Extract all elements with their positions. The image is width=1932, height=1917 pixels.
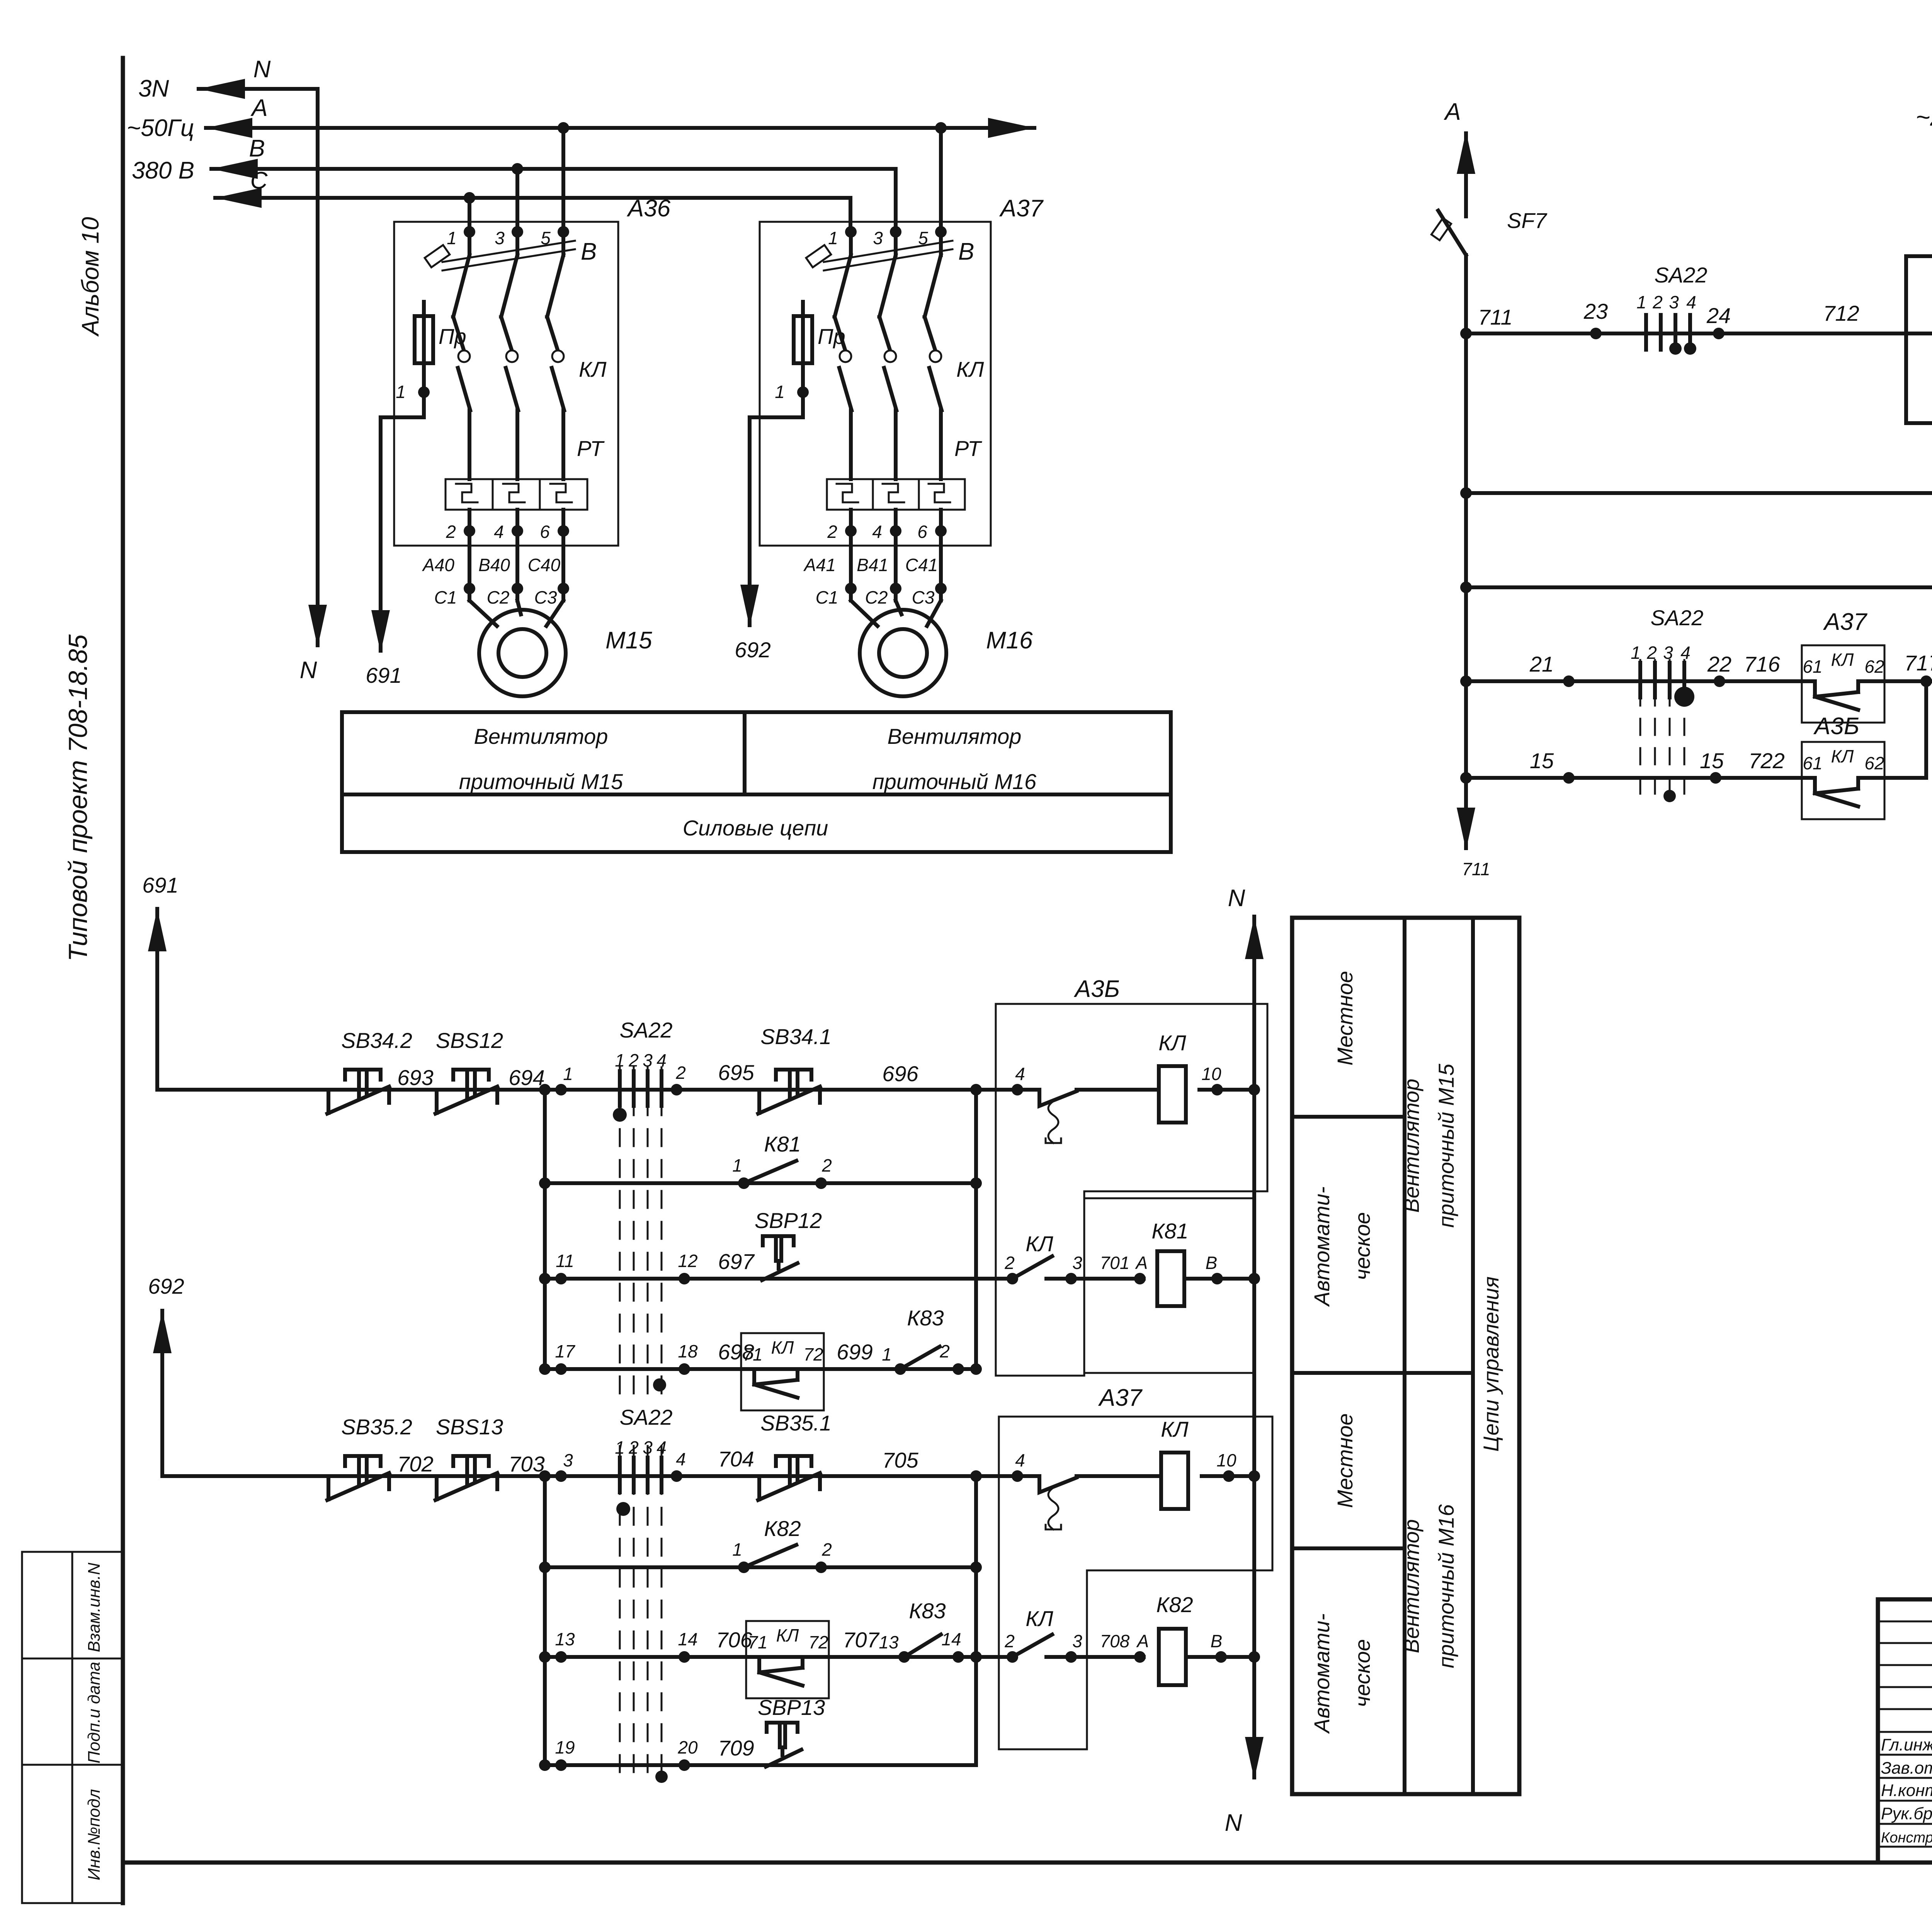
svg-text:4: 4 [1680,643,1690,663]
svg-text:SB34.1: SB34.1 [760,1024,832,1049]
svg-text:716: 716 [1744,652,1780,676]
svg-text:Пр: Пр [818,324,845,349]
svg-text:2: 2 [1652,292,1663,312]
svg-text:709: 709 [718,1736,754,1760]
svg-text:SB35.1: SB35.1 [760,1411,832,1435]
svg-text:712: 712 [1823,301,1859,325]
svg-text:Рук.бриг.: Рук.бриг. [1881,1804,1932,1823]
svg-text:3: 3 [495,228,505,248]
svg-text:1: 1 [882,1344,892,1364]
svg-text:А3Б: А3Б [1813,713,1859,740]
svg-text:Констр.llкат: Констр.llкат [1881,1830,1932,1846]
svg-text:КЛ: КЛ [1831,650,1854,670]
svg-text:Вентилятор: Вентилятор [1399,1519,1423,1653]
svg-text:711: 711 [1462,859,1490,879]
svg-text:1: 1 [1636,292,1646,312]
svg-text:4: 4 [494,522,504,542]
svg-text:11: 11 [556,1251,574,1271]
svg-text:61: 61 [1803,657,1822,677]
svg-text:РТ: РТ [577,436,605,461]
svg-text:Вентилятор: Вентилятор [1399,1079,1423,1213]
svg-text:С41: С41 [905,555,938,575]
svg-text:1: 1 [396,382,406,402]
svg-text:SB35.2: SB35.2 [341,1415,412,1439]
svg-text:1: 1 [1631,643,1641,663]
svg-text:697: 697 [718,1249,755,1274]
svg-text:62: 62 [1864,657,1884,677]
svg-text:24: 24 [1706,303,1731,328]
svg-text:Типовой проект 708-18.85: Типовой проект 708-18.85 [63,634,93,962]
svg-text:КЛ: КЛ [1161,1417,1189,1441]
svg-text:А37: А37 [1823,609,1868,635]
svg-text:1: 1 [732,1155,742,1175]
svg-text:704: 704 [718,1447,754,1471]
svg-text:SA22: SA22 [620,1018,673,1042]
svg-text:692: 692 [148,1274,184,1298]
svg-text:21: 21 [1529,652,1554,676]
svg-text:1: 1 [775,382,785,402]
svg-text:М16: М16 [986,627,1033,654]
svg-text:В: В [581,238,597,265]
svg-text:4: 4 [656,1437,667,1458]
svg-text:19: 19 [555,1737,575,1757]
svg-text:702: 702 [397,1452,433,1476]
svg-text:N: N [1228,885,1245,912]
svg-text:SBP12: SBP12 [755,1208,822,1233]
svg-text:3: 3 [1072,1253,1082,1273]
svg-text:2: 2 [827,522,837,542]
svg-text:3N: 3N [138,75,169,102]
svg-text:SBS12: SBS12 [436,1028,503,1053]
svg-text:6: 6 [540,522,550,542]
svg-text:3: 3 [643,1050,653,1070]
svg-text:2: 2 [628,1437,639,1458]
svg-text:701: 701 [1100,1253,1130,1273]
svg-text:694: 694 [509,1065,544,1090]
svg-text:10: 10 [1216,1450,1236,1470]
svg-text:SB34.2: SB34.2 [341,1028,412,1053]
svg-text:2: 2 [821,1539,832,1560]
svg-text:707: 707 [843,1628,879,1652]
svg-text:В40: В40 [478,555,510,575]
svg-text:Автомати-: Автомати- [1310,1613,1334,1734]
svg-text:А: А [1443,99,1461,125]
svg-text:~220 В: ~220 В [1916,103,1932,131]
svg-text:15: 15 [1530,748,1554,773]
svg-text:71: 71 [743,1344,762,1364]
svg-text:Зав.отд.: Зав.отд. [1881,1759,1932,1778]
svg-text:717: 717 [1904,651,1932,675]
svg-text:1: 1 [732,1539,742,1560]
svg-text:В: В [958,238,974,265]
svg-text:А: А [1136,1631,1149,1651]
svg-text:Н.контр.: Н.контр. [1881,1781,1932,1800]
svg-text:приточный М16: приточный М16 [872,769,1037,794]
svg-text:2: 2 [821,1155,832,1175]
svg-text:SF7: SF7 [1507,208,1548,233]
svg-text:380 В: 380 В [132,157,194,184]
svg-text:КЛ: КЛ [771,1337,794,1357]
svg-text:Пр: Пр [439,324,466,349]
svg-text:23: 23 [1583,299,1608,323]
svg-text:3: 3 [1669,292,1679,312]
svg-text:18: 18 [678,1341,698,1361]
svg-text:1: 1 [447,228,457,248]
svg-text:приточный М15: приточный М15 [1434,1063,1458,1228]
svg-text:Гл.инж пр.: Гл.инж пр. [1881,1735,1932,1754]
svg-text:4: 4 [656,1050,667,1070]
svg-text:703: 703 [509,1452,544,1476]
svg-text:КЛ: КЛ [1026,1232,1053,1256]
svg-text:13: 13 [555,1629,575,1649]
svg-text:13: 13 [879,1632,899,1652]
svg-text:КЛ: КЛ [1158,1031,1186,1055]
svg-text:SA22: SA22 [1651,606,1704,630]
svg-text:2: 2 [1004,1631,1015,1651]
svg-text:4: 4 [1015,1064,1025,1084]
svg-text:М15: М15 [605,627,652,654]
svg-text:2: 2 [675,1063,686,1083]
svg-text:Подп.и дата: Подп.и дата [85,1662,104,1763]
svg-text:А3Б: А3Б [1073,976,1120,1002]
svg-text:2: 2 [628,1050,639,1070]
svg-text:приточный М16: приточный М16 [1434,1504,1458,1668]
svg-text:4: 4 [676,1449,686,1469]
svg-text:В: В [249,135,265,162]
svg-text:приточный М15: приточный М15 [459,769,623,794]
svg-text:2: 2 [939,1341,950,1361]
svg-text:20: 20 [677,1737,698,1757]
svg-text:17: 17 [555,1341,575,1361]
svg-text:РТ: РТ [954,436,982,461]
svg-text:3: 3 [563,1450,573,1470]
svg-text:6: 6 [917,522,927,542]
svg-text:691: 691 [142,873,178,897]
svg-text:Местное: Местное [1333,971,1357,1066]
svg-text:~50Гц: ~50Гц [127,115,194,141]
svg-text:ческое: ческое [1350,1639,1374,1707]
svg-text:705: 705 [882,1448,918,1472]
svg-text:695: 695 [718,1060,754,1085]
svg-text:К82: К82 [764,1516,801,1541]
svg-text:14: 14 [678,1629,697,1649]
svg-text:КЛ: КЛ [579,357,607,381]
svg-text:К83: К83 [907,1306,944,1330]
svg-text:71: 71 [748,1632,767,1652]
svg-text:61: 61 [1803,753,1822,773]
svg-text:691: 691 [366,663,401,687]
svg-text:Местное: Местное [1333,1414,1357,1508]
svg-text:1: 1 [563,1064,573,1084]
svg-text:Альбом 10: Альбом 10 [77,217,104,337]
svg-text:708: 708 [1100,1631,1130,1651]
svg-text:А: А [250,95,267,121]
svg-text:В41: В41 [857,555,888,575]
svg-text:К83: К83 [909,1599,946,1623]
svg-text:10: 10 [1201,1064,1221,1084]
svg-text:3: 3 [643,1437,653,1458]
svg-text:КЛ: КЛ [1831,746,1854,766]
svg-text:2: 2 [1004,1253,1015,1273]
svg-text:Взам.инв.N: Взам.инв.N [85,1563,104,1652]
svg-text:К81: К81 [764,1132,801,1156]
svg-text:4: 4 [1686,292,1696,312]
svg-text:А: А [1135,1253,1148,1273]
svg-text:С2: С2 [487,587,510,607]
svg-text:КЛ: КЛ [956,357,984,381]
svg-text:N: N [300,657,317,684]
svg-text:А36: А36 [626,195,671,222]
svg-text:2: 2 [446,522,456,542]
svg-text:А37: А37 [1098,1385,1143,1411]
svg-text:SBS13: SBS13 [436,1415,503,1439]
svg-text:SA22: SA22 [1655,263,1708,287]
svg-text:В: В [1211,1631,1223,1651]
svg-text:3: 3 [1072,1631,1082,1651]
svg-text:1: 1 [828,228,838,248]
svg-text:КЛ: КЛ [776,1625,799,1645]
svg-text:ческое: ческое [1350,1212,1374,1280]
svg-text:711: 711 [1478,305,1512,329]
svg-text:С1: С1 [434,587,457,607]
svg-text:Автомати-: Автомати- [1310,1186,1334,1307]
svg-text:1: 1 [615,1050,625,1070]
svg-text:А40: А40 [422,555,454,575]
svg-text:693: 693 [397,1065,433,1090]
svg-text:1: 1 [615,1437,625,1458]
svg-text:SBP13: SBP13 [758,1695,825,1720]
svg-text:4: 4 [1015,1450,1025,1470]
svg-text:А41: А41 [803,555,836,575]
svg-text:692: 692 [735,638,770,662]
svg-text:3: 3 [873,228,883,248]
svg-text:62: 62 [1864,753,1884,773]
svg-text:3: 3 [1663,643,1673,663]
svg-text:С3: С3 [534,587,557,607]
svg-text:4: 4 [872,522,882,542]
svg-text:К82: К82 [1156,1592,1193,1617]
svg-text:К81: К81 [1151,1219,1188,1243]
svg-text:Вентилятор: Вентилятор [888,724,1022,748]
svg-text:N: N [1225,1810,1242,1836]
svg-text:15: 15 [1700,748,1724,773]
svg-text:14: 14 [941,1629,961,1649]
svg-text:Цепи управления: Цепи управления [1479,1276,1503,1452]
svg-text:Вентилятор: Вентилятор [474,724,608,748]
svg-text:С40: С40 [528,555,561,575]
svg-text:722: 722 [1748,748,1784,773]
svg-text:72: 72 [803,1344,823,1364]
svg-text:Инв.№подл: Инв.№подл [85,1789,104,1880]
svg-text:Силовые цепи: Силовые цепи [683,816,828,840]
svg-text:699: 699 [837,1340,872,1364]
svg-text:А37: А37 [999,195,1044,222]
svg-text:22: 22 [1707,652,1731,676]
svg-text:КЛ: КЛ [1026,1606,1053,1631]
svg-text:С1: С1 [816,587,838,607]
svg-text:696: 696 [882,1061,918,1086]
svg-text:С2: С2 [865,587,888,607]
svg-text:В: В [1206,1253,1218,1273]
svg-text:SA22: SA22 [620,1405,673,1429]
svg-text:12: 12 [678,1251,697,1271]
svg-text:72: 72 [808,1632,828,1652]
svg-text:N: N [253,56,271,83]
svg-text:С3: С3 [912,587,935,607]
